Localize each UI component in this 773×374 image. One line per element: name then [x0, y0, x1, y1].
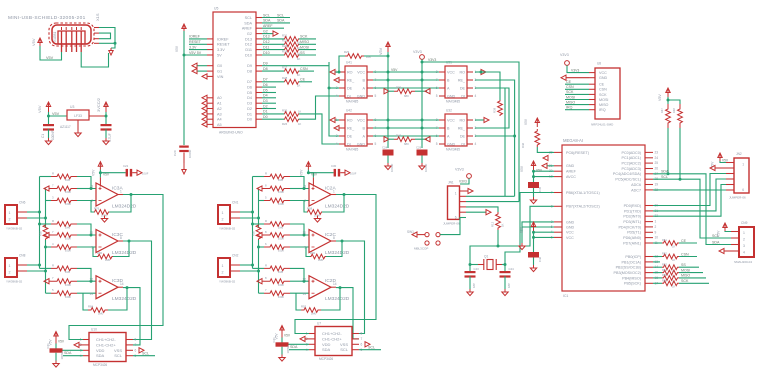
op-amp IC3D output stub	[118, 286, 123, 288]
svg-text:CE: CE	[599, 83, 605, 87]
IC U42 right pin stubs	[367, 119, 373, 121]
svg-text:U8: U8	[597, 62, 601, 66]
resistor R54	[653, 272, 662, 274]
net SCK wire	[299, 38, 316, 40]
resistor divider vertical	[256, 224, 261, 240]
svg-text:PD4(XCK/T0): PD4(XCK/T0)	[618, 225, 641, 229]
svg-text:D2: D2	[263, 104, 268, 108]
svg-text:10: 10	[89, 231, 93, 235]
svg-text:23: 23	[655, 150, 659, 154]
svg-text:2: 2	[9, 270, 11, 274]
svg-text:1M0: 1M0	[311, 312, 317, 316]
wire CN2 to bus	[240, 264, 253, 266]
op-amp IC2A output stub	[331, 194, 336, 196]
svg-text:X1S: X1S	[95, 13, 100, 21]
svg-text:IC2C: IC2C	[325, 232, 336, 238]
svg-text:6: 6	[742, 188, 744, 192]
connector JN1 stubs	[460, 190, 467, 192]
svg-text:MAX3485: MAX3485	[446, 148, 460, 152]
svg-text:DE: DE	[347, 134, 353, 138]
supply V5V AREF	[531, 161, 535, 170]
svg-text:RO: RO	[347, 70, 353, 74]
wire feedback 2	[113, 241, 129, 257]
ground usb arrow	[109, 48, 113, 55]
svg-text:100NF: 100NF	[188, 149, 192, 158]
svg-text:1K: 1K	[672, 285, 675, 289]
net arrow U8 GND	[566, 77, 589, 79]
power arrow below C20	[183, 153, 185, 164]
svg-text:G1: G1	[217, 70, 222, 74]
net MOSI wire	[679, 272, 703, 274]
svg-text:U32: U32	[446, 109, 452, 113]
op-amp IC3A	[96, 183, 118, 206]
wire reset	[537, 147, 554, 152]
net SCL U7	[359, 349, 381, 351]
svg-text:SCL: SCL	[661, 175, 668, 179]
capacitor C46	[528, 252, 539, 258]
svg-text:PB7(XTAL2/TOSC2): PB7(XTAL2/TOSC2)	[566, 205, 600, 209]
svg-text:VCC: VCC	[447, 70, 455, 74]
svg-text:IOREF: IOREF	[189, 35, 201, 39]
svg-text:SCL: SCL	[114, 353, 123, 358]
net PB1 stub	[653, 261, 660, 263]
wire V5V vertical rail	[387, 52, 389, 148]
wire output loop 3	[336, 288, 359, 339]
svg-text:IC3A: IC3A	[112, 186, 123, 192]
svg-text:V5V: V5V	[284, 334, 291, 338]
net arrow left R40	[384, 137, 389, 142]
resistor R29	[345, 54, 364, 59]
svg-text:JN1: JN1	[448, 181, 454, 185]
svg-text:C45: C45	[538, 186, 542, 192]
svg-text:MAX485: MAX485	[346, 148, 358, 152]
svg-text:5: 5	[436, 142, 438, 146]
resistor 7	[44, 186, 49, 191]
wire row A bottom pair	[373, 119, 439, 121]
svg-text:SS: SS	[300, 51, 305, 55]
resistor 7	[44, 232, 49, 237]
svg-text:680: 680	[404, 94, 409, 98]
svg-text:RESET: RESET	[217, 43, 230, 47]
wire SDA to CN9	[668, 174, 739, 245]
svg-text:GND: GND	[447, 142, 456, 146]
supply V5V opamp	[306, 162, 310, 170]
svg-text:3VCC/2: 3VCC/2	[96, 97, 101, 112]
svg-text:7: 7	[361, 337, 363, 341]
wire feedback 2	[326, 241, 342, 257]
svg-text:PC3(ADC3): PC3(ADC3)	[622, 167, 641, 171]
svg-text:D2: D2	[247, 107, 252, 111]
svg-text:GND: GND	[566, 220, 575, 224]
svg-text:SDA: SDA	[277, 19, 285, 23]
wire U31 pin3 to U32 DE bus	[475, 88, 509, 128]
net arrow GND pin21	[547, 165, 554, 167]
supply V5V VCC pins	[531, 222, 535, 231]
module U5 right pin stubs	[256, 17, 262, 19]
svg-text:1M0: 1M0	[278, 270, 284, 274]
svg-text:13: 13	[302, 292, 306, 296]
wire U32 pin3 to bus	[475, 135, 515, 137]
svg-text:R23: R23	[282, 44, 288, 48]
svg-text:4: 4	[475, 142, 477, 146]
svg-text:PD2(INT0): PD2(INT0)	[623, 215, 641, 219]
svg-text:CH1+CH2-: CH1+CH2-	[322, 331, 342, 336]
svg-text:D1: D1	[247, 112, 252, 116]
IC U32 right pin stubs	[467, 119, 473, 121]
wire crystal left	[470, 264, 478, 266]
svg-text:1: 1	[9, 264, 11, 268]
svg-text:ARDUINO-UNO: ARDUINO-UNO	[219, 131, 243, 135]
svg-text:GND: GND	[599, 76, 608, 80]
supply arrow V5V rail	[182, 24, 186, 31]
resistor R24	[262, 54, 284, 56]
resistor R88 feedback	[307, 210, 322, 215]
svg-text:V5V: V5V	[391, 68, 398, 72]
net arrow left R39	[384, 89, 389, 94]
svg-text:R36: R36	[252, 231, 256, 236]
svg-text:10: 10	[302, 231, 306, 235]
svg-text:1M0: 1M0	[98, 312, 104, 316]
svg-text:YW396B-02: YW396B-02	[219, 227, 236, 231]
net MOSI wire	[299, 49, 316, 51]
capacitor C24	[383, 150, 394, 156]
svg-text:100K: 100K	[65, 202, 71, 206]
svg-text:1M0: 1M0	[278, 226, 284, 230]
svg-text:VCC: VCC	[357, 70, 365, 74]
svg-text:1M0: 1M0	[278, 178, 284, 182]
resistor R28	[262, 81, 284, 83]
ground C1	[48, 129, 50, 138]
svg-text:1: 1	[743, 231, 745, 235]
wire usb gnd loop	[81, 52, 108, 67]
wire XTAL1	[505, 193, 554, 265]
svg-text:LM324D2D: LM324D2D	[325, 204, 350, 210]
svg-text:4: 4	[475, 94, 477, 98]
svg-text:SCK: SCK	[300, 35, 308, 39]
svg-text:R24: R24	[282, 49, 288, 53]
net G0 G1 stubs	[197, 65, 207, 67]
resistor R	[40, 223, 52, 225]
net G2 stub	[262, 33, 273, 35]
net D6-D2 stubs	[262, 86, 276, 88]
svg-text:4: 4	[336, 142, 338, 146]
net arrow JN2 pin2	[715, 167, 726, 169]
svg-text:CH1+CH2-: CH1+CH2-	[96, 337, 116, 342]
svg-text:V5V: V5V	[524, 118, 528, 125]
svg-text:VSS: VSS	[340, 342, 348, 347]
svg-text:AVCC: AVCC	[566, 175, 576, 179]
wire usb comb low	[99, 42, 115, 44]
wire V5V JN2 pin1	[720, 161, 726, 163]
svg-text:AZ1117: AZ1117	[60, 125, 71, 129]
net arrow U41 RE	[334, 77, 339, 82]
net arrow U7 pin6	[365, 342, 370, 347]
svg-text:MCP3426: MCP3426	[319, 357, 333, 361]
capacitor C43	[469, 265, 471, 272]
svg-text:IOREF: IOREF	[217, 37, 229, 41]
net D9 wire to RS485 enable	[262, 65, 329, 67]
resistor R	[253, 267, 265, 269]
wire JN1 pin2	[466, 195, 515, 197]
svg-text:CE: CE	[681, 239, 687, 243]
ground C45	[533, 188, 535, 197]
svg-text:R39: R39	[396, 86, 402, 90]
svg-text:YW396B-02: YW396B-02	[6, 227, 23, 231]
svg-text:PD0(RXD): PD0(RXD)	[624, 204, 641, 208]
IC U8 body	[595, 68, 620, 119]
net SDA U7	[289, 349, 309, 351]
svg-text:D13: D13	[245, 37, 252, 41]
svg-text:13: 13	[89, 292, 93, 296]
svg-text:MBL3COP: MBL3COP	[414, 247, 428, 251]
svg-text:D3: D3	[247, 102, 252, 106]
svg-text:1K: 1K	[501, 223, 505, 227]
svg-text:12: 12	[302, 277, 306, 281]
svg-text:PC4(ADC4/SDA): PC4(ADC4/SDA)	[613, 172, 641, 176]
svg-text:MEGA8-AI: MEGA8-AI	[563, 138, 583, 143]
svg-text:CSN: CSN	[681, 252, 689, 256]
svg-text:18P: 18P	[507, 283, 511, 288]
svg-text:100K: 100K	[278, 202, 284, 206]
svg-text:G2: G2	[263, 29, 268, 33]
supply V5V rail RS485	[386, 42, 390, 52]
svg-text:1K: 1K	[672, 258, 675, 262]
wire V5V rail left of U5	[183, 31, 185, 145]
IC U7 left stubs	[309, 333, 315, 335]
op-amp IC2D output stub	[331, 286, 336, 288]
svg-text:A1: A1	[217, 102, 222, 106]
svg-text:SDA: SDA	[244, 21, 252, 25]
svg-text:RE_: RE_	[458, 78, 466, 82]
svg-text:3: 3	[91, 185, 93, 189]
svg-text:VCC: VCC	[447, 118, 455, 122]
wire CN1 to bus	[240, 211, 253, 213]
svg-text:MCP3426: MCP3426	[93, 363, 107, 367]
supply V5V CN9	[723, 223, 727, 231]
svg-text:SS: SS	[681, 263, 686, 267]
wire feedback 3	[321, 288, 340, 310]
svg-text:C30: C30	[331, 164, 337, 168]
svg-text:R84: R84	[88, 305, 94, 309]
svg-text:PB0(ICP): PB0(ICP)	[625, 255, 641, 259]
resistor R76 feedback	[94, 210, 109, 215]
wire U7 pin1 loop	[295, 320, 314, 334]
svg-text:R: R	[52, 219, 54, 223]
resistor R56	[653, 282, 662, 284]
resistor 6	[259, 246, 265, 248]
svg-text:GND: GND	[357, 142, 366, 146]
IC U41 right pin stubs	[367, 71, 373, 73]
wire pullup top	[667, 97, 669, 104]
svg-text:SDA: SDA	[712, 240, 720, 244]
ground U10 bypass	[53, 361, 59, 368]
connector CN1 body	[218, 205, 230, 224]
svg-text:100NF: 100NF	[51, 130, 55, 140]
op-amp IC2C output stub	[331, 240, 336, 242]
resistor R12	[496, 212, 501, 230]
svg-text:MAX3485: MAX3485	[446, 100, 460, 104]
svg-text:100K: 100K	[278, 190, 284, 194]
svg-text:CSN: CSN	[566, 85, 574, 89]
svg-text:26: 26	[655, 167, 659, 171]
wire JN2 pin5 to INT0	[653, 185, 726, 217]
svg-text:R52: R52	[662, 252, 667, 256]
svg-text:U7: U7	[317, 322, 321, 326]
op-amp IC3D	[96, 276, 118, 299]
svg-text:R: R	[265, 172, 267, 176]
svg-text:PD1(TXD): PD1(TXD)	[624, 209, 641, 213]
svg-text:MINI-USB-SCHIELD-32005-201: MINI-USB-SCHIELD-32005-201	[8, 15, 86, 21]
svg-text:R36: R36	[39, 231, 43, 236]
svg-text:5: 5	[375, 94, 377, 98]
svg-text:R29: R29	[344, 50, 350, 54]
ground C43	[469, 276, 471, 289]
net CSN wire	[679, 256, 697, 258]
connector CN8 stubs	[17, 264, 27, 266]
svg-text:A3: A3	[217, 112, 222, 116]
net arrow U32 pin1	[475, 119, 484, 121]
svg-text:19: 19	[655, 183, 659, 187]
resistor R55	[653, 277, 662, 279]
capacitor U7 bypass	[276, 342, 289, 346]
svg-text:MISO: MISO	[300, 40, 309, 44]
connector X1S body outline	[52, 25, 91, 44]
wire top bus V3V3 to JN1	[422, 62, 519, 202]
svg-text:C20: C20	[173, 150, 177, 156]
net arrow right R39	[425, 89, 430, 94]
svg-text:PC6(/RESET): PC6(/RESET)	[566, 151, 589, 155]
resistor R92 feedback	[301, 308, 321, 313]
net MISO wire	[299, 43, 316, 45]
svg-text:R90: R90	[310, 251, 316, 255]
resistor R48	[678, 104, 683, 128]
supply V5V opamp	[98, 162, 102, 170]
svg-text:PC2(ADC2): PC2(ADC2)	[622, 162, 641, 166]
svg-text:R: R	[265, 263, 267, 267]
svg-text:LM324D2D: LM324D2D	[325, 250, 350, 256]
net RX wire to U41 DI	[299, 96, 339, 119]
IC U32 left pin stubs	[439, 119, 445, 121]
svg-text:24: 24	[655, 156, 659, 160]
wire V5V to opamp power pin	[99, 170, 101, 178]
svg-text:1K: 1K	[298, 122, 301, 126]
resistor R53	[653, 266, 662, 268]
IC U10 body	[89, 333, 126, 362]
svg-text:R40: R40	[396, 134, 402, 138]
svg-text:Q1: Q1	[484, 255, 488, 259]
resistor R21	[262, 38, 284, 40]
connector CN6 body	[5, 205, 17, 224]
svg-text:1K: 1K	[672, 244, 675, 248]
svg-text:1: 1	[222, 211, 224, 215]
wire bus A	[252, 177, 254, 269]
net AREF wire	[262, 27, 284, 29]
svg-text:PC0(ADC0): PC0(ADC0)	[622, 151, 641, 155]
net CE wire	[679, 242, 697, 244]
wire input top join	[77, 224, 96, 235]
svg-text:U41: U41	[346, 61, 352, 65]
svg-text:V5V: V5V	[37, 105, 42, 113]
wire row B bottom pair	[373, 127, 439, 129]
wire usb comb outer	[99, 28, 115, 49]
svg-text:1M0: 1M0	[65, 178, 71, 182]
resistor 5	[259, 200, 265, 202]
wire bus x509 to JN1 pin2	[504, 88, 506, 196]
supply V5V pullups	[666, 88, 670, 97]
wire V3V3 to U8 VCC	[567, 65, 589, 72]
IC U31 right pin stubs	[467, 71, 473, 73]
svg-text:SMAU200-04: SMAU200-04	[734, 260, 752, 264]
svg-text:D13: D13	[263, 35, 270, 39]
svg-text:SCL: SCL	[277, 13, 284, 17]
svg-text:1K: 1K	[297, 84, 301, 88]
net arrow reset	[543, 155, 548, 160]
svg-text:IC3C: IC3C	[112, 232, 123, 238]
svg-text:V5V: V5V	[175, 45, 179, 52]
wire V5V U7 to VDD	[282, 338, 309, 345]
svg-text:100K: 100K	[278, 283, 284, 287]
svg-text:5: 5	[375, 142, 377, 146]
wire input top join	[77, 177, 96, 189]
svg-text:RE_: RE_	[347, 78, 355, 82]
svg-text:DI: DI	[347, 94, 351, 98]
wire input bottom	[77, 200, 96, 202]
svg-text:PB6(XTAL1/TOSC1): PB6(XTAL1/TOSC1)	[566, 191, 600, 195]
resistor R	[40, 267, 52, 269]
svg-text:V5V: V5V	[31, 38, 36, 46]
resistor R52	[653, 256, 662, 258]
svg-text:2: 2	[655, 225, 657, 229]
svg-text:MOSI: MOSI	[300, 45, 309, 49]
svg-text:G0: G0	[217, 64, 222, 68]
svg-text:D11: D11	[245, 48, 252, 52]
ground C44	[504, 276, 506, 289]
supply V3V3 rail RS485	[420, 55, 425, 60]
wire input top join	[290, 268, 309, 281]
svg-text:V5V 5V: V5V 5V	[189, 51, 202, 55]
svg-text:1: 1	[655, 220, 657, 224]
svg-text:CE: CE	[300, 78, 306, 82]
net SDA U10	[63, 355, 83, 357]
svg-text:U3: U3	[70, 105, 74, 109]
IC U10 right stubs	[126, 339, 133, 341]
svg-text:100NF: 100NF	[424, 163, 428, 172]
op-amp IC3C	[96, 230, 118, 253]
wire VCC pins	[533, 231, 535, 252]
wire R29 left	[339, 56, 345, 72]
svg-text:R51: R51	[662, 238, 667, 242]
svg-text:V3V3: V3V3	[413, 50, 422, 54]
svg-text:680: 680	[404, 142, 409, 146]
resistor R22	[262, 43, 284, 45]
wire input bottom	[77, 292, 96, 294]
svg-text:JUMPER-06: JUMPER-06	[729, 196, 746, 200]
resistor 5	[46, 292, 52, 294]
IC U31 left pin stubs	[439, 71, 445, 73]
wire row C top pair	[373, 87, 439, 89]
svg-text:YW396B-02: YW396B-02	[219, 280, 236, 284]
svg-text:SDA: SDA	[290, 345, 298, 349]
svg-text:CE: CE	[566, 80, 572, 84]
svg-text:PB5(SCK): PB5(SCK)	[624, 282, 641, 286]
svg-text:3.3V: 3.3V	[189, 45, 197, 49]
svg-text:D11: D11	[263, 45, 269, 49]
svg-text:RO: RO	[459, 118, 465, 122]
svg-text:RO: RO	[347, 118, 353, 122]
svg-text:GND: GND	[357, 94, 366, 98]
capacitor C29	[417, 150, 428, 156]
svg-text:R46: R46	[521, 142, 525, 148]
